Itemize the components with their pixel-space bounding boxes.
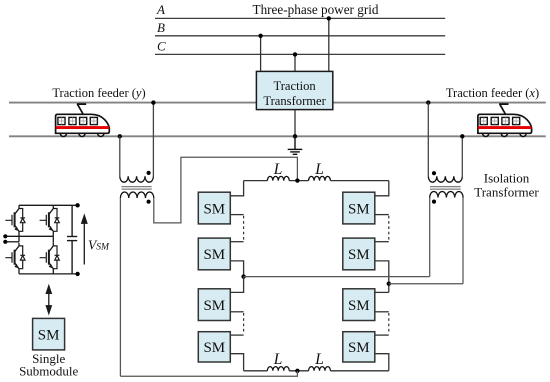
wire SM R3 lower stub	[375, 311, 389, 313]
svg-text:L: L	[273, 161, 283, 178]
svg-text:SM: SM	[203, 298, 225, 314]
wire SM L4 upper stub	[230, 334, 243, 336]
svg-text:B: B	[157, 20, 165, 35]
svg-text:Isolation: Isolation	[484, 171, 530, 186]
svg-text:L: L	[273, 351, 283, 368]
wire left arm top to SM L1	[230, 181, 243, 196]
wire AC terminal 2	[5, 241, 19, 243]
submodule SM R4	[343, 332, 375, 362]
junction phase B	[258, 34, 262, 38]
submodule SM R3	[343, 289, 375, 321]
wire SM R2 down through mid	[375, 261, 389, 293]
wire SM R1 lower stub	[375, 214, 389, 216]
svg-text:SM: SM	[203, 247, 225, 263]
svg-text:SM: SM	[348, 247, 370, 263]
junction catenary / right transformer	[426, 100, 430, 104]
transistor Q4	[40, 243, 54, 274]
svg-text:Submodule: Submodule	[19, 363, 78, 378]
train on feeder y	[56, 104, 110, 136]
diode of Q2	[53, 209, 59, 232]
diode of Q1	[19, 209, 25, 232]
svg-text:Transformer: Transformer	[474, 185, 539, 200]
svg-text:SM: SM	[348, 340, 370, 356]
wire phase C to transformer	[294, 54, 296, 71]
junction left mid	[241, 274, 245, 278]
svg-text:SM: SM	[348, 298, 370, 314]
submodule SM R2	[343, 238, 375, 270]
left transformer primary winding	[120, 176, 154, 182]
inductor L3	[267, 367, 289, 371]
svg-text:SM: SM	[203, 340, 225, 356]
wire mid bus (node a)	[244, 276, 430, 278]
H-bridge top rail	[19, 204, 78, 206]
wire L2 to right arm	[330, 180, 388, 182]
dashed link SM R3-R4	[388, 313, 390, 334]
wire SM R3 upper stub	[375, 291, 389, 293]
wire AC terminal 1	[5, 235, 53, 237]
wire SM R2 upper stub	[375, 241, 389, 243]
junction rail / right transformer	[460, 134, 464, 138]
traction transformer U1	[256, 71, 332, 109]
AC terminal 2 dot	[3, 240, 7, 244]
wire phase A to transformer	[328, 18, 330, 71]
junction phase C	[293, 52, 297, 56]
wire lower bus (node b)	[389, 283, 463, 285]
wire right leg mid	[52, 236, 54, 242]
diode of Q3	[19, 246, 25, 269]
wire right transformer primary to rail	[461, 136, 463, 176]
wire between L3 L4	[289, 370, 308, 372]
inductor L4	[309, 367, 331, 371]
svg-text:C: C	[157, 39, 166, 54]
right transformer secondary winding	[430, 192, 463, 198]
submodule SM L2	[198, 238, 230, 270]
dashed link SM R1-R2	[388, 216, 390, 241]
svg-text:A: A	[156, 2, 165, 17]
arrow bridge to SM	[46, 286, 51, 314]
wire MMC bottom arm left	[244, 370, 268, 372]
AC terminal 1 dot	[3, 234, 7, 238]
wire catenary to right transformer primary	[427, 103, 429, 177]
svg-text:SM: SM	[38, 327, 60, 343]
svg-text:Transformer: Transformer	[263, 94, 326, 108]
svg-text:Traction feeder (y): Traction feeder (y)	[52, 86, 145, 100]
left transformer secondary winding	[120, 192, 153, 198]
transistor Q3	[5, 243, 19, 274]
H-bridge DC+ node	[75, 203, 79, 207]
svg-text:SM: SM	[348, 201, 370, 217]
wire between L1 L2	[289, 180, 308, 182]
junction phase A	[327, 16, 331, 20]
wire right secondary right terminal to lower bus	[462, 198, 464, 284]
dashed link SM L1-L2	[243, 216, 245, 241]
wire SM L2 upper stub	[230, 241, 243, 243]
svg-text:Traction feeder (x): Traction feeder (x)	[446, 86, 539, 100]
inductor L2	[309, 176, 331, 180]
catenary feeder y (left)	[9, 102, 256, 104]
svg-text:L: L	[314, 161, 324, 178]
junction neutral-rail	[293, 134, 297, 138]
H-bridge bottom rail	[19, 273, 78, 275]
transistor Q2	[40, 205, 54, 236]
wire L4 to right arm	[330, 370, 388, 372]
ground	[288, 136, 303, 154]
svg-text:Traction: Traction	[273, 79, 316, 93]
phase line A	[155, 17, 445, 19]
junction catenary / left transformer	[151, 100, 155, 104]
wire mid bus to SM L3	[230, 277, 243, 293]
wire SM L4 to bottom arm	[230, 354, 243, 371]
wire phase B to transformer	[260, 36, 262, 72]
VSM arrow	[82, 215, 87, 264]
submodule SM L3	[198, 289, 230, 321]
right transformer primary winding	[428, 176, 462, 182]
capacitor C1	[67, 205, 77, 274]
wire SM L3 lower stub	[230, 311, 243, 313]
wire SM L2 to mid bus	[230, 261, 243, 277]
inductor L1	[267, 176, 289, 180]
svg-text:SM: SM	[203, 201, 225, 217]
wire SM L1 lower stub	[230, 214, 243, 216]
junction rail / left transformer	[118, 134, 122, 138]
wire left secondary left terminal to bottom return	[119, 198, 121, 376]
wire transformer neutral	[294, 110, 296, 137]
svg-text:L: L	[314, 351, 324, 368]
wire MMC top arm	[244, 180, 268, 182]
phase line B	[155, 35, 445, 37]
polarity dot left secondary	[147, 200, 151, 204]
H-bridge DC- node	[75, 272, 79, 276]
diode of Q4	[53, 246, 59, 269]
svg-text:Three-phase power grid: Three-phase power grid	[253, 2, 379, 17]
rail line	[9, 135, 546, 137]
wire rail to left transformer primary	[119, 136, 121, 176]
submodule SM L4	[198, 332, 230, 362]
wire SM R4 upper stub	[375, 334, 389, 336]
polarity dot right primary	[432, 171, 436, 175]
polarity dot left primary	[147, 171, 151, 175]
right transformer core	[430, 187, 461, 190]
junction bottom arm center	[295, 369, 299, 373]
wire right arm top to SM R1	[375, 181, 389, 196]
wire SM R4 to bottom arm	[375, 354, 389, 371]
wire left secondary right terminal to MMC top	[154, 157, 298, 223]
submodule SM demo	[33, 318, 65, 350]
phase line C	[155, 53, 445, 55]
wire bottom center to left secondary	[120, 371, 297, 376]
wire right secondary left terminal to mid bus	[429, 198, 431, 277]
submodule SM R1	[343, 192, 375, 224]
junction right lower bus	[387, 282, 391, 286]
left transformer core	[122, 187, 152, 190]
catenary feeder x (right)	[333, 102, 546, 104]
transistor Q1	[5, 205, 19, 242]
submodule SM L1	[198, 192, 230, 224]
dashed link SM L3-L4	[243, 313, 245, 334]
train on feeder x	[478, 104, 532, 136]
junction top arm center	[295, 178, 299, 182]
polarity dot right secondary	[432, 200, 436, 204]
wire left transformer primary to catenary	[152, 103, 154, 177]
